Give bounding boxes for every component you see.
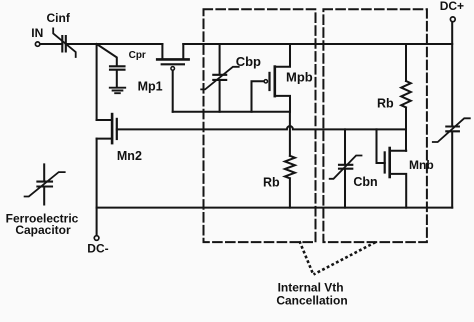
svg-text:Mp1: Mp1 bbox=[138, 79, 163, 93]
svg-text:Cbn: Cbn bbox=[353, 175, 377, 189]
svg-text:Cbp: Cbp bbox=[236, 54, 261, 69]
svg-text:Cinf: Cinf bbox=[47, 11, 71, 25]
svg-text:Mn2: Mn2 bbox=[117, 149, 142, 163]
svg-text:Mpb: Mpb bbox=[286, 69, 313, 84]
svg-text:Capacitor: Capacitor bbox=[15, 223, 71, 237]
svg-text:DC-: DC- bbox=[87, 242, 108, 256]
svg-text:IN: IN bbox=[31, 26, 43, 40]
svg-text:Rb: Rb bbox=[263, 175, 280, 189]
svg-text:Internal Vth: Internal Vth bbox=[278, 280, 344, 294]
svg-text:Cancellation: Cancellation bbox=[276, 293, 347, 307]
svg-text:Mnb: Mnb bbox=[409, 158, 434, 172]
svg-text:DC+: DC+ bbox=[440, 0, 464, 13]
svg-text:Cpr: Cpr bbox=[129, 50, 146, 61]
svg-text:Rb: Rb bbox=[377, 96, 394, 110]
